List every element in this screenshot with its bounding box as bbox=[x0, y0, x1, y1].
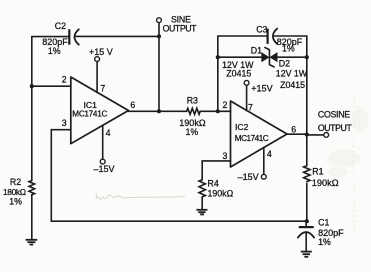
IC2 pin4 -15V supply bbox=[238, 148, 267, 182]
op-amp IC1 bbox=[62, 74, 136, 143]
wire R2 to ground bbox=[31, 195, 33, 240]
wire zener loop top rail left bbox=[218, 35, 267, 37]
junction bottom rail right bbox=[305, 219, 309, 223]
svg-text:1%: 1% bbox=[282, 44, 295, 54]
resistor R1 bbox=[304, 166, 339, 188]
wire IC1 pin2 bbox=[32, 85, 71, 87]
svg-text:1%: 1% bbox=[186, 127, 199, 137]
wire IC1 output to R3 bbox=[129, 110, 187, 112]
svg-text:180kΩ: 180kΩ bbox=[3, 187, 26, 197]
capacitor C3 bbox=[256, 24, 303, 53]
svg-text:–15V: –15V bbox=[94, 164, 115, 174]
svg-text:190kΩ: 190kΩ bbox=[312, 178, 339, 188]
svg-text:Z0415: Z0415 bbox=[226, 69, 251, 79]
ground below R2 bbox=[26, 240, 38, 245]
junction left rail pin2 bbox=[30, 84, 34, 88]
wire diode branch right bbox=[277, 56, 307, 58]
svg-text:4: 4 bbox=[106, 128, 111, 138]
svg-text:6: 6 bbox=[291, 124, 296, 134]
D1 rating label 12V 1W Z0415 bbox=[222, 60, 254, 79]
junction sine node on signal wire bbox=[157, 109, 161, 113]
svg-text:+15V: +15V bbox=[251, 83, 272, 93]
svg-text:1%: 1% bbox=[318, 237, 331, 247]
wire zener loop top rail right, down right rail bbox=[274, 36, 306, 166]
svg-text:Z0415: Z0415 bbox=[280, 80, 305, 90]
wire diode branch left bbox=[218, 56, 262, 58]
junction diode branch left bbox=[216, 55, 220, 59]
ground below R4 bbox=[196, 210, 207, 215]
svg-text:1%: 1% bbox=[48, 46, 61, 56]
svg-text:7: 7 bbox=[100, 84, 105, 94]
wire IC2 output to cosine node bbox=[287, 133, 307, 135]
D2 rating label 12V 1W Z0415 bbox=[276, 69, 308, 90]
op-amp IC2 bbox=[223, 100, 297, 167]
resistor R4 bbox=[199, 179, 234, 199]
IC2 pin7 +15V supply bbox=[244, 80, 272, 110]
svg-text:C1: C1 bbox=[318, 217, 329, 227]
svg-text:190kΩ: 190kΩ bbox=[208, 189, 234, 199]
svg-text:1%: 1% bbox=[9, 197, 22, 207]
junction R3 right node bbox=[216, 109, 220, 113]
IC1 pin7 +15V supply bbox=[89, 47, 113, 92]
wire IC2 pin3 to R4 bbox=[202, 161, 230, 180]
capacitor C2 bbox=[42, 21, 79, 56]
svg-text:4: 4 bbox=[267, 149, 272, 159]
svg-text:IC2: IC2 bbox=[235, 122, 249, 132]
wire IC1 pin3 and down to bottom rail bbox=[51, 130, 71, 222]
svg-text:3: 3 bbox=[223, 151, 228, 161]
svg-text:3: 3 bbox=[62, 118, 67, 128]
wire R4 to ground bbox=[201, 197, 203, 210]
svg-text:MC1741C: MC1741C bbox=[235, 134, 269, 143]
wire R1 to bottom rail bbox=[306, 184, 308, 222]
resistor R3 bbox=[179, 96, 206, 137]
wire R3 to IC2 pin2 bbox=[200, 110, 230, 112]
IC1 pin4 -15V supply bbox=[94, 126, 115, 175]
svg-text:C2: C2 bbox=[55, 21, 66, 31]
node SINE OUTPUT terminal bbox=[157, 14, 198, 111]
junction diode branch right bbox=[305, 55, 309, 59]
svg-text:R3: R3 bbox=[187, 96, 198, 106]
wire vertical from signal node up to zener loop bbox=[217, 36, 219, 111]
faint scan artifact squiggle below IC1 bbox=[96, 193, 185, 199]
svg-text:D1: D1 bbox=[251, 46, 262, 56]
wire C2 to SINE node bbox=[76, 35, 159, 37]
svg-text:R2: R2 bbox=[10, 177, 21, 187]
zener diode D2 bbox=[270, 53, 290, 69]
junction cosine node bbox=[305, 132, 309, 136]
svg-text:MC1741C: MC1741C bbox=[72, 110, 107, 119]
svg-text:2: 2 bbox=[223, 100, 228, 110]
svg-text:12V 1W: 12V 1W bbox=[276, 69, 308, 79]
zener diode D1 bbox=[251, 46, 269, 62]
svg-text:–15V: –15V bbox=[238, 172, 259, 182]
faint scan blotches right margin bbox=[328, 96, 368, 232]
svg-text:D2: D2 bbox=[279, 58, 290, 68]
svg-text:R1: R1 bbox=[312, 167, 323, 177]
bottom rail bbox=[51, 220, 306, 222]
svg-text:6: 6 bbox=[130, 100, 135, 110]
capacitor C1 bbox=[298, 217, 344, 251]
svg-text:C3: C3 bbox=[256, 24, 267, 34]
svg-text:+15 V: +15 V bbox=[89, 47, 113, 57]
zener bar shared cathode bbox=[265, 48, 274, 67]
resistor R2 bbox=[3, 177, 35, 207]
node COSINE OUTPUT terminal bbox=[307, 110, 353, 138]
ground below C1 bbox=[301, 252, 312, 257]
wire left rail from C2 left plate down to R2 bbox=[32, 37, 68, 181]
svg-text:2: 2 bbox=[62, 74, 67, 84]
junction sine node top bbox=[157, 34, 161, 38]
svg-text:R4: R4 bbox=[208, 179, 219, 189]
svg-text:7: 7 bbox=[248, 102, 253, 112]
svg-text:COSINE: COSINE bbox=[318, 110, 350, 120]
svg-text:OUTPUT: OUTPUT bbox=[163, 24, 198, 34]
svg-text:OUTPUT: OUTPUT bbox=[318, 123, 353, 133]
